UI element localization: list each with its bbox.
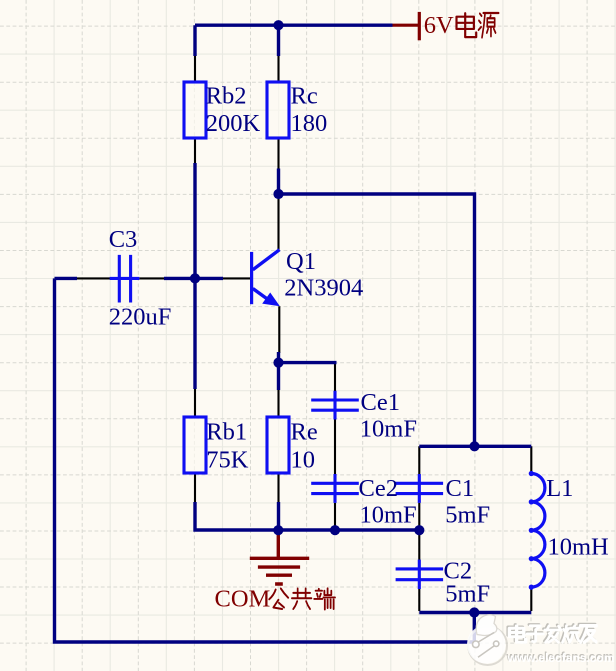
svg-text:5mF: 5mF	[445, 501, 490, 528]
svg-text:10mF: 10mF	[360, 501, 417, 528]
svg-text:10mH: 10mH	[548, 534, 609, 561]
svg-text:L1: L1	[546, 475, 573, 502]
svg-text:200K: 200K	[206, 110, 261, 137]
svg-text:220uF: 220uF	[109, 304, 172, 331]
svg-text:6V: 6V	[424, 12, 454, 39]
svg-text:Rc: Rc	[291, 82, 318, 109]
svg-text:180: 180	[291, 110, 328, 137]
svg-text:Ce2: Ce2	[359, 475, 398, 502]
svg-text:Rb2: Rb2	[206, 82, 247, 109]
svg-text:10: 10	[291, 447, 316, 474]
svg-text:Ce1: Ce1	[361, 389, 400, 416]
svg-text:5mF: 5mF	[445, 581, 490, 608]
svg-text:Rb1: Rb1	[206, 419, 247, 446]
svg-text:Q1: Q1	[286, 248, 316, 275]
svg-text:COM: COM	[215, 586, 271, 613]
svg-text:www.elecfans.com: www.elecfans.com	[507, 651, 615, 665]
svg-text:10mF: 10mF	[360, 416, 417, 443]
svg-text:75K: 75K	[206, 447, 249, 474]
svg-text:Re: Re	[291, 419, 318, 446]
svg-text:C1: C1	[446, 475, 475, 502]
svg-text:C3: C3	[109, 226, 138, 253]
svg-text:2N3904: 2N3904	[284, 275, 363, 302]
